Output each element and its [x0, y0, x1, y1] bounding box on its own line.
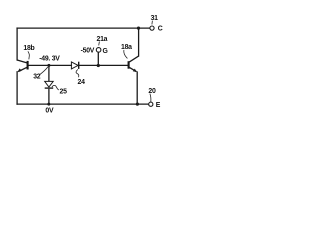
svg-text:31: 31: [151, 15, 159, 22]
node grid junction dot: [97, 64, 100, 67]
terminal E circle (node 20): [149, 102, 153, 106]
svg-text:C: C: [158, 26, 163, 33]
wire grid node vertical: [97, 52, 99, 65]
label 20: [148, 88, 156, 102]
terminal C circle (node 31): [150, 26, 154, 30]
label 24: [76, 69, 85, 86]
svg-text:25: 25: [60, 88, 68, 95]
label 32: [33, 67, 48, 81]
wire base line right of diode 24: [79, 64, 128, 66]
svg-text:32: 32: [33, 73, 41, 80]
wire 18a collector vertical: [138, 28, 140, 56]
wire 18b base line: [29, 64, 72, 66]
label 31: [151, 15, 159, 24]
svg-text:20: 20: [148, 88, 156, 95]
node 0V junction dot: [47, 103, 50, 106]
node bottom junction dot (18a emitter): [136, 103, 139, 106]
svg-text:G: G: [103, 48, 108, 55]
wire top rail: [17, 27, 150, 29]
diode D25: [45, 65, 54, 104]
svg-text:-50V: -50V: [81, 47, 95, 54]
wire 18a emitter vertical: [136, 72, 138, 104]
label 21a: [97, 36, 108, 46]
wire left rail (18b collector vertical): [16, 28, 18, 60]
svg-text:E: E: [156, 102, 161, 109]
label 25: [52, 85, 67, 95]
svg-text:18a: 18a: [121, 44, 132, 51]
label 18b: [23, 45, 34, 59]
wire 18b emitter vertical: [16, 72, 18, 104]
svg-text:21a: 21a: [97, 36, 108, 43]
node top junction dot (18a collector): [137, 27, 140, 30]
wire bottom rail: [17, 103, 149, 105]
node 32 junction dot: [47, 64, 50, 67]
svg-text:-49. 3V: -49. 3V: [39, 56, 60, 63]
transistor Q18b: [17, 60, 28, 72]
terminal G circle (node 21a): [96, 48, 101, 53]
diode D24: [71, 62, 78, 69]
transistor Q18a: [129, 56, 139, 72]
svg-text:24: 24: [78, 79, 86, 86]
svg-text:18b: 18b: [23, 45, 34, 52]
svg-text:0V: 0V: [45, 107, 54, 114]
label 18a: [121, 44, 132, 58]
